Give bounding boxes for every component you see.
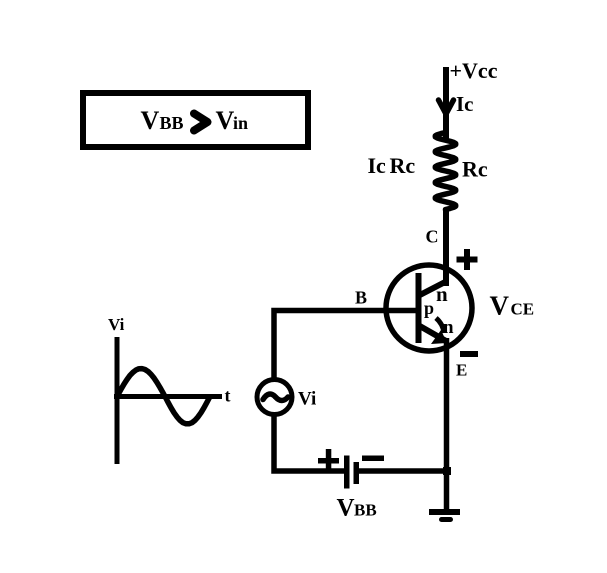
- battery VBB positive plate: [344, 456, 350, 489]
- svg-text:V: V: [490, 291, 510, 321]
- wire source to battery: [274, 413, 344, 471]
- label + (battery): [318, 449, 339, 472]
- resistor Rc: [435, 131, 455, 211]
- svg-text:CE: CE: [511, 300, 535, 319]
- svg-text:Rc: Rc: [390, 153, 416, 178]
- label VCE: [490, 291, 535, 321]
- svg-text:BB: BB: [354, 501, 377, 520]
- svg-text:C: C: [426, 227, 439, 247]
- svg-text:Rc: Rc: [462, 157, 488, 182]
- svg-text:n: n: [436, 282, 448, 306]
- svg-text:E: E: [456, 361, 467, 380]
- greater-than symbol: [194, 114, 208, 131]
- emitter arrow: [431, 318, 447, 344]
- wire junction to ground: [444, 471, 450, 511]
- junction node: [443, 467, 451, 475]
- wire emitter down: [444, 338, 450, 473]
- label - (battery): [362, 456, 384, 462]
- label VBB (battery): [337, 495, 377, 522]
- svg-text:Vi: Vi: [298, 389, 316, 410]
- svg-text:BB: BB: [160, 113, 184, 133]
- label VBB > Vin: [141, 106, 249, 135]
- transistor base bar: [416, 273, 422, 343]
- svg-text:n: n: [443, 317, 454, 338]
- svg-text:t: t: [225, 386, 231, 406]
- svg-text:p: p: [424, 298, 434, 318]
- svg-text:B: B: [355, 288, 367, 308]
- svg-text:V: V: [337, 495, 355, 522]
- svg-text:V: V: [216, 106, 235, 135]
- svg-text:Ic: Ic: [456, 92, 474, 116]
- svg-text:Vi: Vi: [108, 315, 125, 334]
- current arrow Ic: [439, 100, 454, 114]
- svg-text:Ic: Ic: [368, 153, 387, 178]
- ac source Vi: [257, 380, 292, 415]
- battery VBB negative plate: [354, 462, 360, 484]
- ground: [429, 509, 460, 522]
- wire collector to transistor: [443, 208, 449, 286]
- label - (emitter polarity): [460, 351, 478, 357]
- wire base: [274, 311, 418, 379]
- svg-text:in: in: [233, 113, 248, 133]
- sine waveform: [117, 369, 210, 424]
- label + (collector polarity): [457, 249, 478, 270]
- label IcRc: [368, 153, 416, 178]
- graph axis t: [114, 394, 222, 399]
- svg-text:+Vcc: +Vcc: [450, 58, 498, 83]
- collector lead: [418, 281, 447, 296]
- svg-text:V: V: [141, 106, 160, 135]
- inequality box frame: [83, 93, 308, 147]
- emitter lead: [418, 325, 446, 341]
- graph axis Vi: [115, 337, 120, 464]
- wire collector top: [443, 67, 449, 140]
- wire battery to junction: [359, 468, 449, 474]
- transistor Q1 circle: [386, 265, 472, 351]
